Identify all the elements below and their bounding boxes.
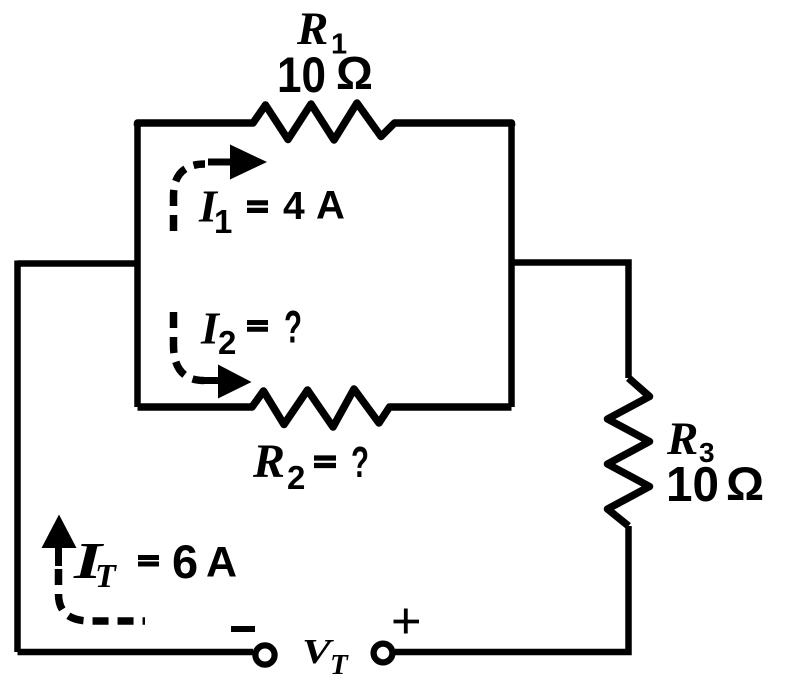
svg-text:A: A <box>206 539 237 587</box>
svg-text:?: ? <box>284 302 302 353</box>
svg-text:4: 4 <box>283 185 305 228</box>
wire: bottom left from rail to negative terminal <box>18 649 254 656</box>
wire: inner loop right vertical <box>508 123 515 407</box>
polarity plus sign <box>394 609 420 634</box>
svg-text:A: A <box>316 184 345 228</box>
current arrow I1 (dashed curve) <box>174 164 206 231</box>
svg-text:1: 1 <box>214 203 232 240</box>
terminal: negative terminal of source VT <box>255 645 274 664</box>
current arrow I1 (shaft and head) <box>208 159 233 166</box>
wire: inner loop top-left segment with resistor R1 zigzag <box>138 103 512 140</box>
current arrow IT (dashed curve) <box>59 569 146 621</box>
resistor R2 zigzag on inner loop bottom wire <box>138 389 512 427</box>
svg-text:Ω: Ω <box>336 47 373 99</box>
svg-text:2: 2 <box>218 324 236 361</box>
wire: right branch from node B to resistor R3 <box>512 263 629 379</box>
svg-text:?: ? <box>351 438 369 487</box>
wire: outer left vertical rail down to source <box>14 261 21 653</box>
current arrow I2 (shaft and head) <box>199 377 221 384</box>
current arrow IT (shaft and head) <box>55 548 62 566</box>
svg-text:T: T <box>330 649 349 681</box>
wire: inner loop left vertical (node A to node B) <box>134 123 141 407</box>
current arrow I2 (dashed curve) <box>174 312 205 381</box>
svg-text:6: 6 <box>172 535 198 588</box>
terminal: positive terminal of source VT <box>374 644 393 663</box>
svg-text:10: 10 <box>666 458 719 512</box>
svg-text:T: T <box>95 558 117 595</box>
svg-text:10: 10 <box>277 47 326 103</box>
svg-text:R: R <box>252 435 285 488</box>
polarity minus sign <box>231 626 255 632</box>
svg-text:2: 2 <box>287 459 305 496</box>
resistor R3 zigzag (vertical) <box>608 378 650 526</box>
wire: left branch from node A to outer left rail <box>18 260 138 267</box>
svg-text:Ω: Ω <box>726 458 764 511</box>
wire: from R3 down to bottom and left to positive terminal <box>395 526 629 652</box>
